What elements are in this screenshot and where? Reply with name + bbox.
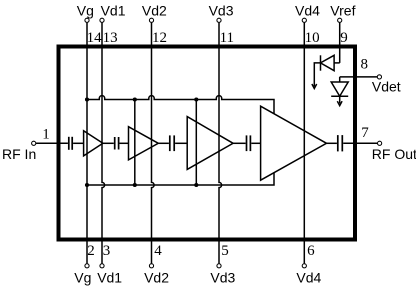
svg-text:8: 8 — [361, 57, 369, 73]
Vref wire to diode D1 — [334, 62, 340, 64]
diode D2 anode stub — [339, 77, 341, 82]
RF Out wire (pin 7) — [343, 142, 377, 144]
junction dot top rail / stage 2 stub — [133, 97, 137, 101]
junction dot bottom rail / stage 3 stub — [194, 183, 198, 187]
svg-text:Vdet: Vdet — [372, 79, 401, 95]
svg-text:9: 9 — [340, 30, 348, 46]
wire D1 to down arrow — [314, 63, 320, 87]
svg-text:Vd4: Vd4 — [296, 270, 321, 286]
svg-text:3: 3 — [103, 243, 111, 259]
stage 3 bias stub — [195, 100, 197, 186]
svg-text:12: 12 — [152, 30, 167, 46]
wire C2 to A2 — [120, 142, 129, 144]
amplifier stage A2 — [129, 127, 159, 160]
svg-text:5: 5 — [221, 243, 229, 259]
svg-text:RF In: RF In — [2, 146, 36, 162]
capacitor C3 — [170, 135, 174, 151]
svg-text:4: 4 — [154, 243, 162, 259]
svg-text:Vd3: Vd3 — [209, 2, 234, 18]
pin 5 terminal circle — [217, 264, 221, 268]
svg-text:Vd2: Vd2 — [142, 2, 167, 18]
junction dot top rail / stage 3 stub — [194, 97, 198, 101]
pin 4 terminal circle — [149, 264, 153, 268]
pin 9 terminal circle — [338, 18, 342, 22]
capacitor C1 — [69, 137, 72, 150]
pin 9 lead (Vref vertical) — [339, 23, 341, 63]
svg-text:10: 10 — [305, 30, 320, 46]
pin 8 terminal circle — [377, 75, 381, 79]
down arrow (D1 output) — [312, 84, 317, 89]
RF In wire — [36, 142, 68, 144]
main block outline — [59, 47, 356, 240]
diode D1 (points left) — [321, 55, 335, 70]
pin 2 terminal circle — [85, 264, 89, 268]
pin 3 terminal circle — [100, 264, 104, 268]
svg-text:RF Out: RF Out — [372, 146, 416, 162]
capacitor C2 — [115, 137, 119, 150]
wire A4 to C5 — [327, 142, 337, 144]
top Vg bias rail with hops over Vd1 Vd2 Vd3 — [87, 96, 274, 114]
svg-text:Vg: Vg — [77, 2, 94, 18]
junction dot bottom rail / stage 2 stub — [133, 183, 137, 187]
svg-text:11: 11 — [220, 30, 234, 46]
svg-text:Vg: Vg — [74, 270, 91, 286]
bottom Vg bias rail — [87, 173, 274, 185]
wire C3 to A3 — [175, 142, 187, 144]
svg-text:Vref: Vref — [330, 2, 355, 18]
svg-text:13: 13 — [103, 30, 118, 46]
amplifier stage A1 — [84, 131, 103, 156]
diode D2 stem — [339, 96, 341, 103]
pin 1 terminal circle — [32, 141, 36, 145]
pin 14 / pin 2 lead (Vg vertical) — [86, 23, 88, 264]
svg-text:7: 7 — [361, 125, 369, 141]
pin 11 / pin 5 lead (Vd3 vertical with hop over bottom rail) — [219, 23, 222, 264]
svg-text:1: 1 — [42, 127, 50, 143]
pin 13 / pin 3 lead (Vd1 vertical with hop over bottom rail) — [102, 23, 105, 264]
wire C1 to A1 — [73, 142, 84, 144]
amplifier stage A3 — [187, 117, 233, 170]
diode D2 cathode bar — [331, 95, 348, 97]
capacitor C4 — [247, 135, 251, 151]
svg-text:Vd1: Vd1 — [101, 2, 126, 18]
capacitor C5 — [338, 135, 343, 151]
pin 12 / pin 4 lead (Vd2 vertical with hop over bottom rail) — [152, 23, 155, 264]
pin 10 / pin 6 lead (Vd4 vertical) — [303, 23, 305, 264]
diode D2 (points down) — [331, 82, 348, 96]
Vdet wire (pin 8) — [340, 76, 378, 78]
wire C4 to A4 — [251, 142, 260, 144]
svg-text:Vd1: Vd1 — [97, 270, 122, 286]
pin 12 terminal circle — [149, 18, 153, 22]
pin 14 terminal circle — [85, 18, 89, 22]
pin 11 terminal circle — [217, 18, 221, 22]
svg-text:Vd4: Vd4 — [295, 2, 320, 18]
wire A2 to C3 — [158, 142, 169, 144]
down arrow (D2 output) — [337, 101, 342, 106]
junction dot top rail / Vg — [85, 97, 89, 101]
svg-text:14: 14 — [87, 30, 103, 46]
pin 6 terminal circle — [302, 264, 306, 268]
amplifier stage A4 — [261, 106, 327, 180]
pin 10 terminal circle — [302, 18, 306, 22]
junction dot bottom rail / Vg — [85, 183, 89, 187]
stage 2 bias stub — [134, 100, 136, 186]
pin 7 terminal circle — [378, 141, 382, 145]
diode D1 cathode bar — [320, 55, 322, 70]
wire A3 to C4 — [233, 142, 246, 144]
svg-text:Vd3: Vd3 — [210, 270, 235, 286]
svg-text:2: 2 — [87, 243, 95, 259]
svg-text:6: 6 — [307, 243, 315, 259]
svg-text:Vd2: Vd2 — [144, 270, 169, 286]
wire A1 to C2 — [103, 142, 114, 144]
pin 13 terminal circle — [100, 18, 104, 22]
